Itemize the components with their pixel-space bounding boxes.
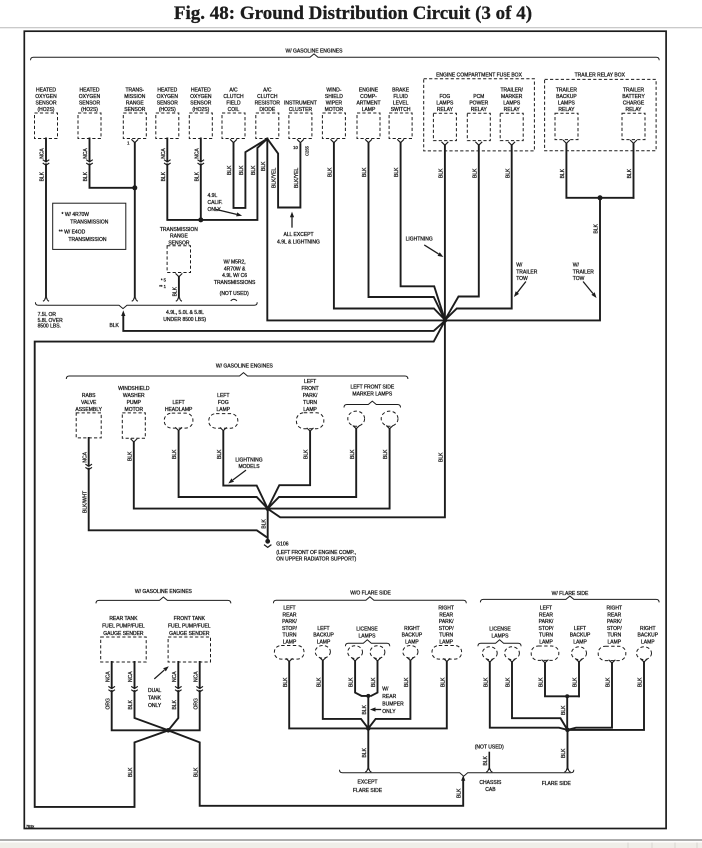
svg-text:SHIELD: SHIELD — [325, 94, 343, 100]
junction trailer relay common — [598, 195, 603, 200]
svg-text:TRAILER: TRAILER — [516, 269, 538, 275]
svg-text:BLK: BLK — [394, 167, 400, 177]
svg-text:BLK: BLK — [404, 677, 410, 687]
wire marker lamp 2 ground — [268, 429, 390, 509]
svg-text:BLK: BLK — [40, 171, 46, 181]
wire left headlamp ground — [179, 431, 268, 508]
svg-text:C255: C255 — [304, 145, 309, 156]
svg-text:TURN: TURN — [283, 633, 297, 639]
svg-text:(NOT USED): (NOT USED) — [475, 744, 504, 750]
svg-text:BLK: BLK — [627, 168, 633, 178]
svg-text:LICENSE: LICENSE — [356, 626, 378, 632]
svg-text:BLK/YEL: BLK/YEL — [272, 167, 278, 188]
svg-text:HEATED: HEATED — [191, 87, 211, 93]
svg-text:(LEFT FRONT OF ENGINE COMP.,: (LEFT FRONT OF ENGINE COMP., — [276, 550, 356, 556]
svg-text:BLK: BLK — [239, 165, 245, 175]
svg-text:SENSOR: SENSOR — [190, 100, 212, 106]
svg-text:MOTOR: MOTOR — [325, 107, 344, 113]
svg-text:COMP-: COMP- — [360, 94, 377, 100]
brace engine group split (7.5L vs 4.9/5.0/5.8L) — [35, 302, 257, 308]
svg-text:DIODE: DIODE — [259, 107, 276, 113]
svg-text:LEFT: LEFT — [217, 393, 229, 399]
wire W/ flare common stem to brace — [567, 730, 569, 769]
svg-text:A/C: A/C — [263, 87, 272, 93]
svg-text:NCA: NCA — [82, 451, 88, 462]
svg-text:BLK: BLK — [316, 677, 322, 687]
wire trailer relay common to main junction — [446, 198, 600, 321]
svg-text:MARKER LAMPS: MARKER LAMPS — [352, 392, 392, 398]
svg-text:7B3x: 7B3x — [26, 825, 34, 829]
svg-text:(HO2S): (HO2S) — [81, 107, 98, 113]
svg-text:RIGHT: RIGHT — [438, 606, 454, 612]
svg-text:BLK: BLK — [109, 323, 119, 329]
svg-text:BACKUP: BACKUP — [556, 94, 577, 100]
wire A/C diode to instrument cluster (U loop) — [267, 139, 300, 208]
svg-text:ENGINE COMPARTMENT FUSE BOX: ENGINE COMPARTMENT FUSE BOX — [436, 72, 523, 78]
svg-text:BLK: BLK — [350, 449, 356, 459]
svg-text:4.9L: 4.9L — [208, 193, 218, 199]
svg-text:CALIF.: CALIF. — [208, 200, 223, 206]
svg-text:BLK: BLK — [173, 286, 179, 296]
wire front tank ORG lead — [168, 662, 199, 730]
wire RR park lamp ground — [368, 662, 447, 729]
svg-text:BLK: BLK — [483, 677, 489, 687]
svg-text:LIGHTNING: LIGHTNING — [235, 457, 262, 463]
svg-text:TRAILER/: TRAILER/ — [500, 87, 523, 93]
svg-text:WIPER: WIPER — [326, 100, 343, 106]
svg-text:TOW: TOW — [573, 276, 585, 282]
svg-text:CLUTCH: CLUTCH — [223, 94, 244, 100]
svg-text:RIGHT: RIGHT — [404, 626, 420, 632]
svg-text:LAMPS: LAMPS — [558, 100, 576, 106]
svg-text:STOP/: STOP/ — [439, 626, 455, 632]
wire right backup lamp ground (W/ flare) — [568, 662, 645, 730]
wire rear tank BLK lead — [135, 662, 169, 730]
svg-text:LAMP: LAMP — [216, 407, 230, 413]
caption separator rule — [0, 27, 702, 29]
svg-text:BLK: BLK — [194, 171, 200, 181]
svg-text:SENSOR: SENSOR — [124, 107, 146, 113]
wire RABS valve ground lead — [89, 438, 267, 537]
svg-text:BLK: BLK — [483, 755, 489, 765]
svg-text:REAR: REAR — [539, 612, 553, 618]
svg-text:(HO2S): (HO2S) — [38, 107, 55, 113]
svg-text:LAMP: LAMP — [573, 640, 587, 646]
svg-text:* W/ 4R70W: * W/ 4R70W — [62, 212, 90, 218]
wire fuel common right branch to rear lamp brace arrow — [168, 730, 463, 805]
svg-text:LIGHTNING: LIGHTNING — [406, 237, 433, 243]
svg-text:NCA: NCA — [161, 148, 167, 159]
svg-text:BLK: BLK — [283, 677, 289, 687]
svg-text:LEFT: LEFT — [172, 400, 184, 406]
svg-text:FLARE SIDE: FLARE SIDE — [353, 788, 383, 794]
svg-text:TRANSMISSIONS: TRANSMISSIONS — [214, 280, 256, 286]
svg-text:BLK: BLK — [193, 767, 199, 777]
svg-text:BLK: BLK — [573, 677, 579, 687]
svg-text:* 5: * 5 — [161, 277, 167, 282]
junction HO2S2 / TR sensor wire — [132, 185, 137, 190]
svg-text:LEFT: LEFT — [574, 626, 586, 632]
svg-text:PARK/: PARK/ — [282, 619, 297, 625]
svg-text:BLK: BLK — [606, 677, 612, 687]
svg-text:BLK: BLK — [128, 699, 134, 709]
wire HO2S4 ground lead — [200, 139, 202, 220]
svg-text:INSTRUMENT: INSTRUMENT — [284, 100, 317, 106]
svg-text:LEVEL: LEVEL — [393, 100, 409, 106]
svg-text:HEATED: HEATED — [36, 87, 56, 93]
svg-text:TRANS-: TRANS- — [125, 87, 144, 93]
connector inline C on HO2S1 wire — [45, 162, 47, 163]
svg-text:LAMP: LAMP — [303, 407, 317, 413]
svg-text:ORG: ORG — [193, 698, 199, 710]
wire rear tank ORG lead — [112, 662, 169, 730]
svg-text:LAMPS: LAMPS — [359, 633, 377, 639]
svg-text:PARK/: PARK/ — [303, 393, 318, 399]
svg-text:OXYGEN: OXYGEN — [157, 94, 179, 100]
svg-text:GAUGE SENDER: GAUGE SENDER — [103, 631, 144, 637]
svg-text:BLK: BLK — [472, 168, 478, 178]
svg-text:REAR TANK: REAR TANK — [109, 616, 138, 622]
wire TR sensor ground lead — [134, 143, 136, 298]
svg-text:RESISTOR: RESISTOR — [255, 100, 281, 106]
svg-text:COIL: COIL — [228, 107, 240, 113]
wire license lamp 1 ground (W/ flare) — [490, 662, 568, 730]
svg-text:FRONT: FRONT — [301, 386, 318, 392]
svg-text:BLK: BLK — [328, 167, 334, 177]
svg-text:LAMP: LAMP — [283, 640, 297, 646]
svg-text:4.9L W/ C6: 4.9L W/ C6 — [222, 273, 247, 279]
wire engine compartment lamp ground to junction — [369, 143, 445, 320]
svg-text:REAR: REAR — [607, 612, 621, 618]
junction license common (W/O flare) — [366, 694, 370, 698]
wire license lamp 2 ground — [371, 661, 377, 696]
svg-text:G106: G106 — [276, 541, 288, 547]
wire right backup lamp ground — [368, 661, 410, 729]
svg-text:BLK: BLK — [172, 449, 178, 459]
svg-text:WASHER: WASHER — [123, 393, 145, 399]
svg-text:LEFT: LEFT — [304, 379, 316, 385]
svg-text:8500 LBS.: 8500 LBS. — [38, 324, 61, 330]
svg-text:W/ M5R2,: W/ M5R2, — [223, 260, 245, 266]
svg-text:TRANSMISSION: TRANSMISSION — [160, 227, 198, 233]
svg-text:BLK: BLK — [439, 452, 445, 462]
stub not-used wire end — [231, 299, 237, 301]
wire not-used stub — [488, 753, 490, 770]
svg-text:BLK: BLK — [304, 449, 310, 459]
svg-text:(NOT USED): (NOT USED) — [220, 291, 249, 297]
wire G106 stem — [267, 509, 269, 540]
brace rear ground group — [340, 770, 574, 776]
svg-text:BACKUP: BACKUP — [313, 633, 334, 639]
svg-text:UNDER 8500 LBS): UNDER 8500 LBS) — [163, 317, 206, 323]
wire left backup lamp ground (W/ flare) — [578, 662, 580, 697]
svg-text:BLK: BLK — [561, 705, 567, 715]
svg-text:MARKER: MARKER — [501, 94, 523, 100]
svg-text:TRAILER RELAY BOX: TRAILER RELAY BOX — [575, 72, 626, 78]
svg-text:BLK: BLK — [127, 451, 133, 461]
svg-text:BLK: BLK — [362, 747, 368, 757]
svg-text:REAR: REAR — [439, 612, 453, 618]
svg-text:LAMPS: LAMPS — [436, 100, 454, 106]
svg-text:ALL EXCEPT: ALL EXCEPT — [283, 232, 313, 238]
svg-text:RANGE: RANGE — [170, 234, 188, 240]
svg-text:NCA: NCA — [128, 671, 134, 682]
wire wiper motor ground to junction — [334, 143, 445, 320]
svg-text:RELAY: RELAY — [471, 107, 488, 113]
svg-text:BLK: BLK — [161, 171, 167, 181]
svg-text:REAR: REAR — [283, 612, 297, 618]
svg-text:BLK: BLK — [594, 223, 600, 233]
svg-text:BLK: BLK — [456, 788, 462, 798]
svg-text:BLK: BLK — [440, 677, 446, 687]
svg-text:BACKUP: BACKUP — [402, 633, 423, 639]
wire license lamp 1 ground — [355, 661, 368, 696]
svg-text:RELAY: RELAY — [504, 107, 521, 113]
svg-text:LAMPS: LAMPS — [492, 633, 510, 639]
wire brace continuation (BLK) with up arrow to brace cusp — [123, 317, 445, 331]
svg-text:4R70W &: 4R70W & — [224, 266, 246, 272]
wire TR sensor (lower) ground lead — [178, 277, 180, 298]
svg-text:BLK: BLK — [362, 167, 368, 177]
svg-text:SENSOR: SENSOR — [157, 100, 179, 106]
svg-text:BLK: BLK — [561, 748, 567, 758]
svg-text:LAMP: LAMP — [539, 640, 553, 646]
svg-text:TURN: TURN — [303, 400, 317, 406]
svg-text:TURN: TURN — [539, 633, 553, 639]
svg-text:LAMP: LAMP — [317, 640, 331, 646]
svg-text:FUEL PUMP/FUEL: FUEL PUMP/FUEL — [168, 624, 211, 630]
wire license lamp 2 ground (W/ flare) — [512, 662, 568, 730]
svg-text:FOG: FOG — [439, 94, 450, 100]
svg-text:WINDSHIELD: WINDSHIELD — [118, 386, 150, 392]
svg-text:PCM: PCM — [473, 94, 484, 100]
svg-text:MODELS: MODELS — [238, 464, 260, 470]
svg-text:RANGE: RANGE — [126, 100, 144, 106]
svg-text:OXYGEN: OXYGEN — [35, 94, 57, 100]
junction main ground node G (section 1) — [443, 318, 448, 323]
svg-text:BLK: BLK — [371, 677, 377, 687]
svg-text:NCA: NCA — [193, 671, 199, 682]
svg-text:BLK: BLK — [362, 704, 368, 714]
svg-text:TURN: TURN — [439, 633, 453, 639]
svg-text:Fig. 48: Ground Distribution C: Fig. 48: Ground Distribution Circuit (3 … — [174, 3, 532, 24]
svg-text:CLUTCH: CLUTCH — [257, 94, 278, 100]
svg-text:BLK: BLK — [261, 161, 267, 171]
svg-text:STOP/: STOP/ — [607, 626, 623, 632]
svg-text:CLUSTER: CLUSTER — [289, 107, 313, 113]
svg-text:REAR: REAR — [382, 694, 396, 700]
svg-text:PUMP: PUMP — [127, 400, 142, 406]
wire LR park lamp ground (W/ flare) — [545, 663, 579, 697]
svg-text:RELAY: RELAY — [437, 107, 454, 113]
note ALL EXCEPT 4.9L & LIGHTNING with arrow — [291, 218, 293, 228]
svg-text:BLK: BLK — [506, 677, 512, 687]
svg-text:EXCEPT: EXCEPT — [357, 779, 377, 785]
svg-text:W/: W/ — [573, 263, 580, 269]
svg-text:NCA: NCA — [194, 148, 200, 159]
svg-text:ENGINE: ENGINE — [359, 87, 379, 93]
svg-text:NCA: NCA — [172, 671, 178, 682]
svg-text:FOG: FOG — [218, 400, 229, 406]
wire W/O flare common stem to brace — [367, 728, 369, 768]
svg-text:BLK: BLK — [128, 767, 134, 777]
svg-text:CHARGE: CHARGE — [623, 100, 645, 106]
svg-text:RABS: RABS — [82, 393, 96, 399]
wire trailer battery charge relay ground — [633, 143, 635, 197]
svg-text:ONLY: ONLY — [382, 709, 396, 715]
svg-text:TRAILER: TRAILER — [556, 87, 578, 93]
svg-text:LAMP: LAMP — [405, 640, 419, 646]
svg-text:W/O FLARE SIDE: W/O FLARE SIDE — [350, 591, 391, 597]
svg-text:** W/ E4OD: ** W/ E4OD — [59, 230, 86, 236]
svg-text:BLK/WHT: BLK/WHT — [82, 491, 88, 513]
svg-text:10: 10 — [293, 145, 298, 150]
note box transmission footnotes — [53, 203, 126, 249]
wire PCM power relay ground to junction — [445, 145, 479, 320]
svg-text:BLK: BLK — [383, 449, 389, 459]
svg-text:LEFT FRONT SIDE: LEFT FRONT SIDE — [350, 385, 394, 391]
wire main junction down to G106 junction — [268, 320, 445, 517]
junction park/backup pair (W/ flare) — [565, 694, 569, 698]
wire license common stem — [367, 696, 369, 729]
svg-text:FIELD: FIELD — [226, 100, 241, 106]
svg-text:4.9L & LIGHTNING: 4.9L & LIGHTNING — [277, 239, 320, 245]
svg-text:SWITCH: SWITCH — [391, 107, 411, 113]
svg-text:HEADLAMP: HEADLAMP — [165, 407, 193, 413]
wire left frame ground run (section2 left side / fuel tank branch) — [35, 321, 445, 807]
svg-text:NCA: NCA — [83, 148, 89, 159]
svg-text:BLK: BLK — [83, 171, 89, 181]
svg-text:** 1: ** 1 — [159, 284, 166, 289]
svg-text:OXYGEN: OXYGEN — [79, 94, 101, 100]
svg-text:BLK: BLK — [505, 168, 511, 178]
svg-text:W/ GASOLINE ENGINES: W/ GASOLINE ENGINES — [135, 589, 193, 595]
svg-text:LAMPS: LAMPS — [503, 100, 521, 106]
svg-text:BLK: BLK — [261, 518, 267, 528]
svg-text:ORG: ORG — [105, 698, 111, 710]
svg-text:W/ GASOLINE ENGINES: W/ GASOLINE ENGINES — [216, 364, 274, 370]
svg-text:LEFT: LEFT — [540, 606, 552, 612]
svg-text:SENSOR: SENSOR — [79, 100, 101, 106]
svg-text:BLK: BLK — [638, 677, 644, 687]
junction G106 node — [265, 506, 270, 511]
wire washer pump ground to G106 junction — [134, 442, 268, 509]
svg-text:WIND-: WIND- — [326, 87, 341, 93]
wire A/C field coil to resistor diode (U loop) — [234, 139, 268, 208]
svg-text:HEATED: HEATED — [157, 87, 177, 93]
junction HO2S4 tee — [198, 217, 203, 222]
svg-text:RIGHT: RIGHT — [607, 606, 623, 612]
wire RR park lamp ground (W/ flare) — [568, 663, 613, 730]
svg-text:CAB: CAB — [485, 787, 496, 793]
svg-text:NCA: NCA — [105, 671, 111, 682]
svg-text:BLK: BLK — [349, 677, 355, 687]
svg-text:BLK: BLK — [172, 699, 178, 709]
svg-text:TRAILER: TRAILER — [623, 87, 645, 93]
wire A/C diode main ground to junction — [267, 139, 444, 321]
svg-text:OXYGEN: OXYGEN — [190, 94, 212, 100]
wire left backup lamp ground — [323, 661, 369, 729]
wire front tank BLK lead — [168, 662, 178, 730]
svg-text:FLUID: FLUID — [393, 94, 408, 100]
svg-text:TURN: TURN — [607, 633, 621, 639]
svg-text:BLK: BLK — [539, 677, 545, 687]
svg-text:HEATED: HEATED — [80, 87, 100, 93]
svg-text:DUAL: DUAL — [148, 688, 162, 694]
svg-text:W/ GASOLINE ENGINES: W/ GASOLINE ENGINES — [286, 48, 344, 54]
svg-text:ARTMENT: ARTMENT — [356, 100, 380, 106]
svg-text:CHASSIS: CHASSIS — [479, 780, 502, 786]
svg-text:LAMP: LAMP — [362, 107, 376, 113]
svg-text:PARK/: PARK/ — [439, 619, 454, 625]
svg-text:ONLY: ONLY — [148, 703, 162, 709]
wire left fog lamp ground — [223, 431, 267, 508]
svg-text:BACKUP: BACKUP — [570, 633, 591, 639]
svg-text:A/C: A/C — [229, 87, 238, 93]
svg-text:(HO2S): (HO2S) — [192, 107, 209, 113]
wire HO2S2 ground lead to transmission-range-sensor wire — [90, 139, 135, 188]
svg-text:LAMP: LAMP — [641, 640, 655, 646]
svg-text:BRAKE: BRAKE — [392, 87, 410, 93]
svg-text:TRANSMISSION: TRANSMISSION — [70, 219, 108, 225]
window status bar — [0, 839, 702, 841]
svg-text:LAMP: LAMP — [439, 640, 453, 646]
svg-text:MISSION: MISSION — [124, 94, 146, 100]
svg-text:W/: W/ — [382, 687, 389, 693]
svg-text:BLK: BLK — [217, 449, 223, 459]
svg-text:W/: W/ — [516, 263, 523, 269]
svg-text:BLK: BLK — [227, 165, 233, 175]
wire trailer backup relay ground — [566, 143, 633, 197]
svg-text:NCA: NCA — [40, 148, 46, 159]
svg-text:BLK/YEL: BLK/YEL — [294, 167, 300, 188]
wire brake fluid level switch ground to junction — [401, 143, 445, 320]
wire pair stem (W/ flare) — [566, 696, 568, 730]
svg-text:RELAY: RELAY — [558, 107, 575, 113]
svg-text:BLK: BLK — [251, 165, 257, 175]
svg-text:BLK: BLK — [439, 168, 445, 178]
wire HO2S1 ground lead — [45, 139, 47, 298]
svg-text:(HO2S): (HO2S) — [159, 107, 176, 113]
svg-text:MOTOR: MOTOR — [125, 407, 144, 413]
svg-text:LEFT: LEFT — [317, 626, 329, 632]
svg-text:BLK: BLK — [560, 168, 566, 178]
svg-text:POWER: POWER — [469, 100, 488, 106]
svg-text:TRAILER: TRAILER — [573, 269, 595, 275]
junction W/O flare common — [366, 726, 371, 731]
svg-text:PARK/: PARK/ — [607, 619, 622, 625]
junction fuel sender common — [166, 728, 171, 733]
ground G106 symbol — [265, 539, 270, 544]
svg-text:FLARE SIDE: FLARE SIDE — [542, 781, 572, 787]
svg-text:BACKUP: BACKUP — [638, 633, 659, 639]
svg-text:STOP/: STOP/ — [539, 626, 555, 632]
svg-text:RELAY: RELAY — [625, 107, 642, 113]
wire left front park/turn lamp ground — [268, 432, 310, 509]
wire HO2S3 ground lead, joins A/C diode return — [167, 139, 267, 220]
svg-text:TOW: TOW — [516, 276, 528, 282]
wire trailer/marker lamps relay ground to junction — [445, 145, 512, 320]
svg-text:BUMPER: BUMPER — [382, 702, 404, 708]
svg-text:GAUGE SENDER: GAUGE SENDER — [169, 631, 210, 637]
svg-text:TRANSMISSION: TRANSMISSION — [68, 237, 106, 243]
svg-text:ASSEMBLY: ASSEMBLY — [75, 407, 102, 413]
svg-text:BATTERY: BATTERY — [622, 94, 645, 100]
svg-text:LEFT: LEFT — [283, 606, 295, 612]
wire marker lamp 1 ground — [268, 429, 357, 509]
svg-text:SENSOR: SENSOR — [35, 100, 57, 106]
svg-text:VALVE: VALVE — [81, 400, 97, 406]
